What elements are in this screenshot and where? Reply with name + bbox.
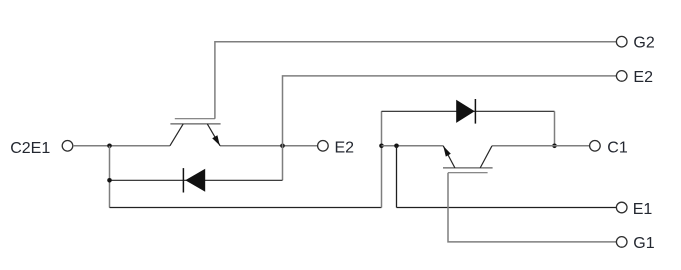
- wire E2 riser: [283, 76, 617, 180]
- terminal G2: [616, 36, 627, 47]
- terminal E2 mid: [318, 141, 329, 152]
- IGBT Q2 emitter leg: [207, 124, 220, 146]
- wire C2E1 to Q1 emitter riser: [381, 111, 383, 207]
- terminal C1: [590, 141, 601, 152]
- node C1 junction: [552, 144, 557, 149]
- IGBT Q1 emitter leg: [443, 146, 455, 168]
- wire bottom bus: [110, 207, 382, 209]
- terminal C2E1: [62, 141, 73, 152]
- terminal E2 top: [616, 71, 627, 82]
- svg-text:C1: C1: [607, 140, 628, 157]
- wire Q1 collector to C1: [492, 145, 590, 147]
- diode D2 cathode bar: [182, 168, 184, 192]
- node E1 sense junction: [394, 144, 399, 149]
- IGBT Q2 collector leg: [170, 124, 183, 146]
- wire C2E1 to Q2 collector: [73, 145, 170, 147]
- IGBT Q2 emitter arrow: [212, 135, 220, 145]
- IGBT Q1 gate bar: [448, 172, 488, 174]
- IGBT Q1 emitter arrow: [443, 146, 451, 157]
- svg-text:G2: G2: [633, 35, 654, 52]
- wire E1: [397, 207, 617, 209]
- wire E1 sense drop: [396, 146, 398, 208]
- terminal E1: [616, 202, 627, 213]
- IGBT Q2 body bar: [170, 123, 220, 125]
- diode D1 triangle: [456, 100, 475, 123]
- IGBT Q1 gate wire: [448, 173, 616, 242]
- node D2 junction: [107, 178, 112, 183]
- IGBT Q1 collector leg: [480, 146, 492, 168]
- wire C2E1 drop: [109, 146, 111, 208]
- svg-text:E1: E1: [633, 201, 653, 218]
- node Q1 emitter junction: [379, 144, 384, 149]
- node C2E1 junction: [107, 144, 112, 149]
- terminal G1: [616, 237, 627, 248]
- diode D2 anode wire: [110, 179, 283, 181]
- wire Q2 emitter to E2: [220, 145, 318, 147]
- diode D1 cathode bar: [474, 99, 476, 124]
- wire Q1 emitter node: [382, 145, 444, 147]
- IGBT Q2 gate bar: [175, 118, 215, 120]
- IGBT Q2 gate wire: [215, 42, 617, 119]
- node E2 junction: [280, 144, 285, 149]
- svg-text:G1: G1: [633, 235, 654, 252]
- diode D2 triangle: [185, 169, 205, 192]
- wire D1 cathode drop: [554, 111, 556, 146]
- IGBT Q1 body bar: [443, 167, 493, 169]
- svg-text:C2E1: C2E1: [10, 140, 50, 157]
- diode D1 wire: [382, 110, 555, 112]
- svg-text:E2: E2: [335, 140, 355, 157]
- svg-text:E2: E2: [633, 69, 653, 86]
